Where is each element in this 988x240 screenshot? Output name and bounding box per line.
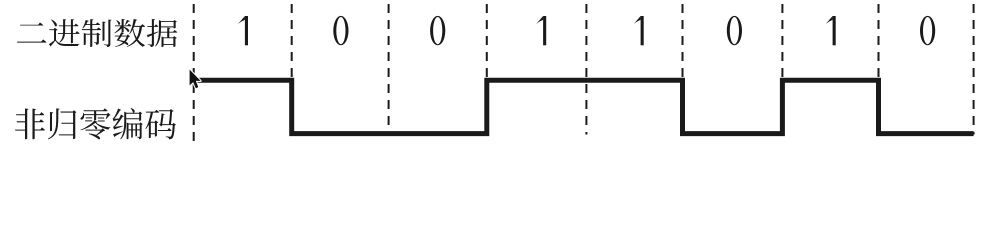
bit value 1 (cell 5) — [634, 16, 641, 24]
dashed bit-cell boundary line 9 — [973, 4, 975, 135]
bit value 1 (cell 7) — [826, 16, 833, 24]
bit value 0 (cell 2) — [333, 16, 348, 45]
dashed bit-cell boundary line 3 — [388, 4, 390, 135]
bit value 0 (cell 3) — [430, 16, 445, 45]
label: NRZ encoding (非归零编码) — [15, 108, 176, 139]
bit value 0 (cell 8) — [920, 16, 935, 45]
dashed bit-cell boundary line 4 — [486, 4, 488, 135]
dashed bit-cell boundary line 2 — [291, 4, 293, 135]
bit value 0 (cell 6) — [727, 16, 742, 45]
mouse cursor pointer — [190, 70, 201, 89]
dashed bit-cell boundary line 6 — [682, 4, 684, 135]
dashed bit-cell boundary line 5 — [585, 4, 587, 135]
bit value 1 (cell 1) — [238, 16, 245, 24]
dashed bit-cell boundary line 8 — [878, 4, 880, 135]
dashed bit-cell boundary line 7 — [781, 4, 783, 135]
label: binary data (二进制数据) — [17, 19, 177, 47]
NRZ waveform — [194, 80, 974, 133]
dashed bit-cell boundary line 1 — [193, 4, 195, 146]
bit value 1 (cell 4) — [536, 16, 543, 24]
